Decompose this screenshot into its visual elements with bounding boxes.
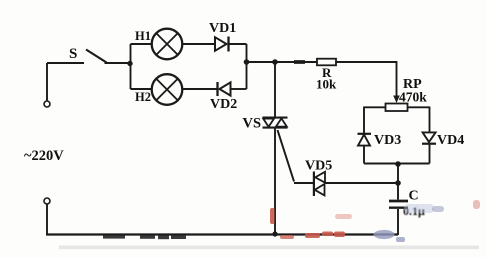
svg-text:S: S bbox=[69, 46, 77, 62]
wire bbox=[46, 204, 48, 235]
svg-text:470k: 470k bbox=[399, 90, 427, 105]
triac VS bbox=[243, 116, 288, 132]
wire bbox=[364, 163, 430, 165]
node junction bbox=[395, 161, 401, 167]
wire bbox=[131, 88, 152, 90]
wire bbox=[364, 106, 386, 108]
wire bbox=[229, 43, 247, 45]
terminal lower bbox=[44, 198, 50, 204]
wire bbox=[105, 62, 132, 64]
node junction bbox=[395, 180, 401, 186]
wire bbox=[363, 107, 365, 134]
wire bottom rail bbox=[46, 233, 398, 235]
wire bbox=[247, 61, 318, 63]
svg-text:VD4: VD4 bbox=[437, 133, 464, 148]
wire bbox=[46, 63, 48, 101]
wire bbox=[183, 43, 215, 45]
node junction bbox=[127, 61, 132, 66]
svg-text:VS: VS bbox=[243, 116, 262, 132]
wire bbox=[326, 182, 399, 184]
svg-text:VD1: VD1 bbox=[209, 21, 236, 36]
diac VD5 bbox=[305, 159, 332, 197]
wire bbox=[408, 106, 430, 108]
lamp H2 bbox=[135, 74, 182, 105]
svg-text:~220V: ~220V bbox=[24, 148, 64, 164]
wire ink smudge bbox=[294, 60, 305, 64]
wire bbox=[294, 182, 314, 184]
svg-text:H1: H1 bbox=[135, 29, 151, 43]
terminal upper bbox=[44, 101, 50, 107]
resistor R bbox=[316, 59, 337, 92]
wire bbox=[397, 164, 399, 200]
diode VD4 bbox=[422, 132, 464, 148]
wire bbox=[396, 61, 398, 96]
wire bbox=[336, 61, 397, 63]
wire gate bbox=[278, 130, 295, 182]
wire bbox=[47, 62, 84, 64]
wire bbox=[363, 146, 365, 164]
wire bbox=[429, 107, 431, 132]
switch S bbox=[69, 46, 107, 63]
lamp H1 bbox=[135, 29, 182, 60]
wire bbox=[397, 209, 399, 235]
diode VD3 bbox=[358, 133, 402, 148]
diode VD1 bbox=[209, 21, 236, 52]
wire bbox=[274, 62, 276, 117]
capacitor C bbox=[389, 189, 425, 219]
node junction bbox=[244, 59, 250, 65]
node junction bbox=[272, 231, 277, 236]
svg-text:VD2: VD2 bbox=[210, 97, 237, 112]
svg-text:VD5: VD5 bbox=[305, 159, 332, 174]
diode VD2 bbox=[210, 82, 237, 112]
svg-text:VD3: VD3 bbox=[374, 133, 401, 148]
wire bbox=[131, 43, 152, 45]
wire bbox=[130, 44, 132, 89]
wire bbox=[429, 145, 431, 164]
svg-text:H2: H2 bbox=[135, 90, 151, 104]
wire bbox=[231, 88, 247, 90]
wire bbox=[274, 129, 276, 236]
wire bbox=[183, 88, 217, 90]
wire bbox=[246, 44, 248, 89]
svg-text:C: C bbox=[409, 189, 419, 204]
node junction bbox=[272, 59, 278, 65]
potentiometer RP bbox=[386, 77, 428, 111]
svg-text:10k: 10k bbox=[316, 77, 337, 92]
